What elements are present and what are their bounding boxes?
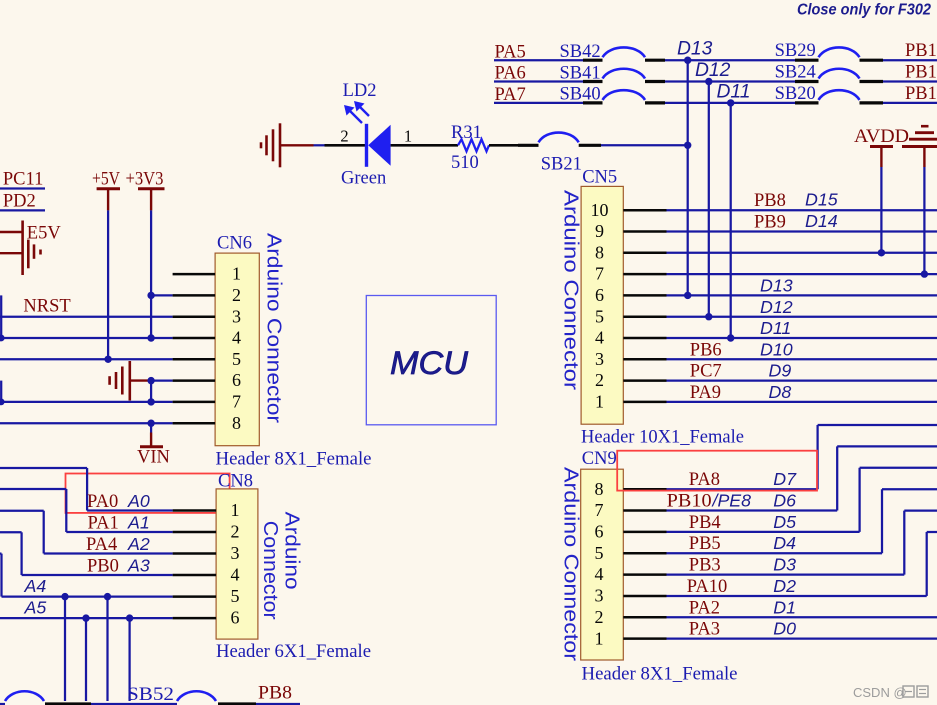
wire D13 vertical [687, 60, 689, 295]
svg-text:7: 7 [595, 264, 604, 284]
svg-text:A4: A4 [24, 576, 47, 596]
wire +5V vertical [107, 210, 109, 359]
wire CN8 A2 feed [0, 511, 173, 554]
svg-text:3: 3 [595, 349, 604, 369]
svg-text:Header 8X1_Female: Header 8X1_Female [582, 665, 738, 685]
svg-text:NRST: NRST [23, 297, 70, 317]
net label PB0 [87, 557, 119, 577]
net label E5V [27, 224, 62, 244]
svg-text:Header 8X1_Female: Header 8X1_Female [216, 450, 372, 470]
net label D15 [805, 190, 838, 210]
net label PA3 [689, 620, 720, 640]
svg-text:PB5: PB5 [689, 534, 721, 554]
wire PD2 [0, 209, 45, 211]
wire CN9 D3 staircase [667, 511, 937, 575]
wire to CN6 pin4 [1, 337, 172, 339]
svg-text:1: 1 [595, 392, 604, 412]
power +5V [92, 170, 121, 211]
svg-text:PA5: PA5 [495, 42, 526, 62]
net label D7 [773, 469, 797, 489]
junction node D11 [727, 99, 734, 106]
net label D12 at CN5 [760, 297, 793, 317]
svg-text:D6: D6 [773, 491, 796, 511]
svg-text:D12: D12 [695, 60, 731, 81]
svg-text:Close only for F302: Close only for F302 [797, 2, 931, 19]
wire CN5 pin4 row D11 [667, 337, 937, 339]
wire NRST to CN6 pin3 [0, 316, 173, 318]
wire SB21 to D13 [601, 144, 688, 146]
comment Header 6X1_Female [216, 642, 371, 662]
svg-text:6: 6 [231, 608, 240, 628]
connector CN6 pins [173, 264, 241, 433]
svg-text:D5: D5 [773, 512, 796, 532]
junction node D13 [684, 57, 691, 64]
connector CN8 body [216, 489, 258, 639]
svg-text:Arduino Connector: Arduino Connector [263, 233, 285, 423]
net label PB13 [905, 41, 937, 61]
svg-text:PB9: PB9 [754, 212, 786, 232]
svg-text:VIN: VIN [137, 448, 170, 468]
wire CN8 A4 feed [0, 554, 173, 597]
LED LD2 [325, 124, 459, 167]
designator CN6 [217, 234, 252, 254]
junction D13 at CN5 pin6 [684, 292, 691, 299]
svg-text:CN5: CN5 [582, 168, 617, 188]
junction gnd pin6 [147, 377, 154, 384]
net label PA4 [86, 535, 117, 555]
svg-text:A0: A0 [127, 491, 150, 511]
wire drop x107 [106, 597, 108, 701]
wire gnd link pin6 pin7 [150, 381, 152, 402]
svg-text:1: 1 [404, 126, 412, 145]
svg-text:Green: Green [341, 169, 386, 189]
wire AVDD vertical [880, 167, 882, 253]
svg-text:PA3: PA3 [689, 620, 720, 640]
designator LD2 [343, 81, 377, 101]
wire left edge vertical B [0, 381, 2, 402]
svg-text:5: 5 [231, 586, 240, 606]
svg-text:PA4: PA4 [86, 535, 117, 555]
svg-text:D8: D8 [769, 382, 792, 402]
svg-text:Arduino: Arduino [281, 512, 303, 590]
svg-text:A1: A1 [127, 513, 150, 533]
svg-text:A5: A5 [24, 598, 47, 618]
svg-text:2: 2 [231, 522, 240, 542]
net label D9 [769, 361, 792, 381]
junction left edge pin7 [0, 399, 5, 406]
comment Arduino Connector CN8 [281, 512, 303, 590]
svg-text:8: 8 [595, 479, 604, 499]
svg-text:10: 10 [591, 200, 609, 220]
highlight box PA8 [617, 451, 817, 491]
junction A5 row x129 [126, 614, 133, 621]
wire CN9 D5 staircase [667, 468, 937, 532]
svg-text:CN9: CN9 [582, 449, 617, 469]
net label PC7 [690, 362, 722, 382]
wire gnd to LD2 [314, 144, 325, 146]
svg-text:D1: D1 [773, 597, 796, 617]
wire CN5 pin10 row [667, 209, 937, 211]
wire drop x129 [128, 618, 130, 701]
junction A5 row x86 [82, 614, 89, 621]
svg-text:SB20: SB20 [775, 84, 816, 104]
solder bridge SB24 [775, 63, 883, 83]
svg-text:1: 1 [231, 500, 240, 520]
wire CN9 D7 staircase [667, 425, 937, 489]
connector CN9 pins [595, 479, 667, 648]
note Close only for F302 [797, 2, 931, 19]
junction node D12 [705, 78, 712, 85]
designator R31 [451, 123, 482, 143]
svg-text:3: 3 [595, 586, 604, 606]
svg-text:5: 5 [595, 543, 604, 563]
svg-text:PA0: PA0 [87, 492, 118, 512]
svg-text:R31: R31 [451, 123, 482, 143]
svg-text:+3V3: +3V3 [126, 170, 164, 190]
wire CN9 D2 staircase [667, 532, 937, 596]
svg-text:SB24: SB24 [775, 63, 816, 83]
svg-text:D10: D10 [760, 339, 793, 359]
svg-text:+5V: +5V [92, 170, 121, 190]
svg-text:6: 6 [595, 522, 604, 542]
svg-text:PB6: PB6 [690, 340, 722, 360]
net label PB9 [754, 212, 786, 232]
junction +5V pin5 [104, 356, 111, 363]
wire CN8 A3 feed [0, 532, 173, 575]
net label PC11 [3, 170, 43, 190]
comment Arduino Connector CN5 [560, 190, 582, 390]
wire CN5 pin6 row D13 [667, 294, 937, 296]
net label PB14 [905, 63, 937, 83]
net label PA8 [689, 470, 720, 490]
pin number 1 [404, 126, 412, 145]
designator CN5 [582, 168, 617, 188]
svg-text:E5V: E5V [27, 224, 62, 244]
ground GND at CN6 [110, 361, 152, 401]
junction A4 row x65 [61, 593, 68, 600]
net label D12 [695, 60, 731, 81]
svg-text:D2: D2 [773, 576, 796, 596]
svg-text:D15: D15 [805, 190, 838, 210]
svg-text:MCU: MCU [390, 345, 469, 381]
solder bridge SB52 [5, 685, 256, 705]
net label PB15 [905, 84, 937, 104]
junction pin7 [147, 398, 154, 405]
net label D11 at CN5 [760, 318, 791, 338]
net label NRST [23, 297, 70, 317]
wire drop x86 [85, 618, 87, 701]
svg-text:PA10: PA10 [687, 577, 727, 597]
junction A4 row x107 [104, 593, 111, 600]
designator CN8 [218, 472, 253, 492]
svg-text:D12: D12 [760, 297, 793, 317]
svg-text:PA7: PA7 [495, 85, 526, 105]
net label PA9 [690, 383, 721, 403]
svg-text:9: 9 [595, 221, 604, 241]
wire CN5 pin8 row AVDD [667, 249, 937, 256]
net label A0 [127, 491, 150, 511]
svg-text:5: 5 [232, 349, 241, 369]
net label D14 [805, 211, 838, 231]
connector CN5 pins [591, 200, 667, 412]
net label PA5 [495, 42, 526, 62]
svg-text:D11: D11 [717, 81, 751, 102]
wire CN5 pin5 row D12 [667, 316, 937, 318]
wire left edge vertical A [0, 295, 2, 338]
svg-text:SB29: SB29 [775, 41, 816, 61]
power E5V [0, 221, 41, 276]
net label PB8 bottom [258, 684, 292, 704]
wire CN9 D1 row [667, 616, 937, 618]
svg-text:8: 8 [595, 242, 604, 262]
svg-text:LD2: LD2 [343, 81, 377, 101]
svg-text:PB13: PB13 [905, 41, 937, 61]
junction VIN pin8 [147, 420, 154, 427]
net label D2 [773, 576, 796, 596]
wire CN9 D6 staircase [667, 446, 937, 510]
wire D11 vertical [730, 103, 732, 338]
comment Header 10X1_Female [581, 428, 744, 448]
junction on D13 at LED row [684, 142, 691, 149]
net label D5 [773, 512, 796, 532]
ground GND at LD2 [261, 123, 314, 167]
svg-text:PB10: PB10 [667, 492, 712, 512]
wire net PA6 row [494, 80, 937, 82]
svg-text:4: 4 [595, 564, 604, 584]
svg-text:SB21: SB21 [541, 155, 582, 175]
svg-text:Arduino Connector: Arduino Connector [560, 190, 582, 390]
svg-text:SB52: SB52 [127, 685, 174, 705]
net label D6 [773, 491, 796, 511]
svg-text:PB14: PB14 [905, 63, 937, 83]
net label D11 [717, 81, 751, 102]
net label PD2 [3, 192, 36, 212]
svg-text:PB0: PB0 [87, 557, 119, 577]
svg-text:D13: D13 [677, 39, 713, 60]
svg-text:Connector: Connector [259, 521, 281, 620]
net label D1 [773, 597, 796, 617]
wire CN5 pin2 row D9 [667, 379, 937, 381]
svg-text:Header 6X1_Female: Header 6X1_Female [216, 642, 371, 662]
svg-text:D11: D11 [760, 318, 791, 338]
wire CN5 pin7 row VDD [667, 270, 937, 277]
net label A5 [24, 598, 47, 618]
wire gnd to CN6 pin6 [151, 379, 173, 381]
net label D3 [773, 555, 796, 575]
resistor R31 [458, 139, 518, 151]
wire CN5 pin3 row D10 [667, 358, 937, 360]
connector CN9 body [581, 469, 624, 660]
comment Header 8X1_Female CN9 [582, 665, 738, 685]
junction D12 at CN5 pin5 [705, 313, 712, 320]
svg-text:PA6: PA6 [495, 64, 526, 84]
wire drop x65 [64, 597, 66, 701]
power AVDD [854, 127, 909, 167]
net label D13 at CN5 [760, 276, 793, 296]
svg-text:PB15: PB15 [905, 84, 937, 104]
wire CN9 D0 row [667, 638, 937, 640]
net label PA6 [495, 64, 526, 84]
solder bridge SB41 [560, 63, 666, 83]
LED arrows [344, 101, 369, 123]
solder bridge SB21 [518, 133, 601, 175]
comment Arduino Connector CN6 [263, 233, 285, 423]
svg-text:PB8: PB8 [754, 191, 786, 211]
power VDD bars [902, 126, 937, 167]
net label PA10 [687, 577, 727, 597]
net label D13 [677, 39, 713, 60]
svg-text:2: 2 [340, 127, 348, 146]
svg-text:PB4: PB4 [689, 513, 721, 533]
svg-text:D7: D7 [773, 469, 797, 489]
wire to CN6 pin5 [0, 358, 173, 360]
net label PB8 [754, 191, 786, 211]
svg-text:D9: D9 [769, 361, 792, 381]
svg-text:D3: D3 [773, 555, 796, 575]
comment Header 8X1_Female CN6 [216, 450, 372, 470]
wire to CN6 pin7 [0, 401, 173, 403]
value 510 [451, 153, 479, 173]
solder bridge SB42 [560, 42, 666, 62]
svg-text:7: 7 [232, 392, 241, 412]
svg-text:D4: D4 [773, 533, 796, 553]
svg-text:510: 510 [451, 153, 479, 173]
net label PA0 [87, 492, 118, 512]
net label D4 [773, 533, 796, 553]
junction D11 at CN5 pin4 [727, 334, 734, 341]
svg-text:3: 3 [232, 306, 241, 326]
svg-text:CN6: CN6 [217, 234, 252, 254]
wire to CN6 pin2 [151, 294, 173, 296]
net label D10 [760, 339, 793, 359]
wire CN8 A5 row [0, 617, 173, 619]
junction +3V3 pin4 [147, 334, 154, 341]
junction left edge pin4 [0, 335, 5, 342]
net label PB10 [667, 491, 752, 512]
net label PA1 [88, 514, 119, 534]
wire CN8 A1 feed [0, 489, 173, 532]
svg-text:4: 4 [232, 328, 241, 348]
wire net PA5 row [494, 59, 937, 61]
svg-text:6: 6 [232, 370, 241, 390]
designator CN9 [582, 449, 617, 469]
svg-text:4: 4 [595, 328, 604, 348]
svg-text:D0: D0 [773, 619, 796, 639]
svg-text:/PE8: /PE8 [712, 491, 752, 511]
wire net PA7 row [494, 102, 937, 104]
net label PB5 [689, 534, 721, 554]
wire D12 vertical [708, 82, 710, 317]
net label PB6 [690, 340, 722, 360]
wire CN5 pin9 row [667, 230, 937, 232]
wire bottom row [0, 703, 300, 705]
wire CN5 pin1 row D8 [667, 401, 937, 403]
net label PB4 [689, 513, 721, 533]
wire CN9 D4 staircase [667, 489, 937, 553]
svg-text:3: 3 [231, 543, 240, 563]
wire PC11 [0, 187, 45, 189]
solder bridge SB20 [775, 84, 883, 104]
highlight box PA0 [66, 474, 230, 513]
svg-text:6: 6 [595, 285, 604, 305]
power VIN [137, 423, 170, 467]
svg-text:A2: A2 [127, 534, 150, 554]
watermark CSDN [853, 685, 928, 700]
MCU block [366, 296, 496, 425]
connector CN5 body [581, 186, 623, 424]
svg-text:PB8: PB8 [258, 684, 292, 704]
svg-text:Arduino Connector: Arduino Connector [560, 467, 582, 661]
svg-text:PC7: PC7 [690, 362, 722, 382]
wire +3V3 vertical [150, 210, 152, 338]
svg-text:2: 2 [595, 607, 604, 627]
svg-text:7: 7 [595, 500, 604, 520]
svg-text:Header 10X1_Female: Header 10X1_Female [581, 428, 744, 448]
svg-text:PA1: PA1 [88, 514, 119, 534]
solder bridge SB40 [560, 85, 666, 105]
net label D0 [773, 619, 796, 639]
net label A3 [127, 556, 150, 576]
svg-text:2: 2 [232, 285, 241, 305]
svg-text:8: 8 [232, 413, 241, 433]
svg-text:PA2: PA2 [689, 598, 720, 618]
junction +3V3 pin2 [147, 292, 154, 299]
svg-text:1: 1 [232, 264, 241, 284]
svg-text:PC11: PC11 [3, 170, 43, 190]
net label A4 [24, 576, 47, 596]
svg-text:5: 5 [595, 306, 604, 326]
wire to CN6 pin8 [0, 422, 173, 424]
pin number 2 [340, 127, 348, 146]
wire CN8 A0 feed [0, 468, 173, 511]
net label A1 [127, 513, 150, 533]
comment Green [341, 169, 386, 189]
connector CN8 pins [173, 500, 240, 628]
svg-text:4: 4 [231, 565, 240, 585]
svg-text:AVDD: AVDD [854, 127, 909, 147]
solder bridge SB29 [775, 41, 883, 61]
svg-text:CSDN @: CSDN @ [853, 685, 907, 700]
wire VDD vertical [923, 167, 925, 274]
svg-text:D14: D14 [805, 211, 838, 231]
svg-text:D13: D13 [760, 276, 793, 296]
svg-text:1: 1 [595, 628, 604, 648]
net label A2 [127, 534, 150, 554]
svg-text:PD2: PD2 [3, 192, 36, 212]
net label D8 [769, 382, 792, 402]
connector CN6 body [215, 253, 259, 446]
net label PA2 [689, 598, 720, 618]
svg-text:2: 2 [595, 370, 604, 390]
svg-text:A3: A3 [127, 556, 150, 576]
svg-text:PA8: PA8 [689, 470, 720, 490]
comment Arduino Connector CN9 [560, 467, 582, 661]
net label PB3 [689, 556, 721, 576]
svg-text:PA9: PA9 [690, 383, 721, 403]
power +3V3 [126, 170, 165, 211]
svg-text:PB3: PB3 [689, 556, 721, 576]
net label PA7 [495, 85, 526, 105]
